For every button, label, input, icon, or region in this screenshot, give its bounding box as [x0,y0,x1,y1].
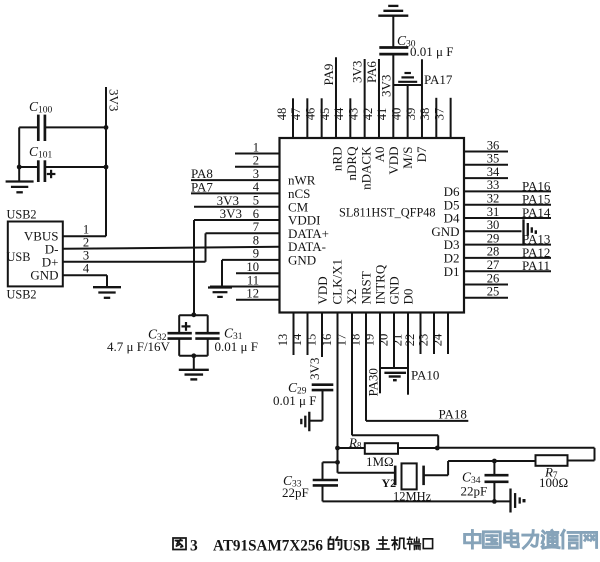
wire pin16 to crystal left [338,472,395,474]
connector USB2 body [8,222,63,287]
small inverted ground above pin 40 [398,73,417,82]
label C100 [29,99,53,116]
pin number 39 [404,108,418,121]
svg-text:47: 47 [289,108,303,121]
pin number 11 [247,273,259,287]
capacitor C31 [195,333,219,338]
pin number 6 [253,207,259,221]
svg-text:0.01 μ F: 0.01 μ F [273,393,316,408]
junction R8/X2 node [435,446,440,451]
wire 3V3 from pin 6 down to C32/C31 [193,220,195,315]
svg-text:PA10: PA10 [411,368,439,383]
pin number 43 [346,108,360,121]
value 100 ohm (R7) [539,475,568,490]
svg-text:4.7 μ F/16V: 4.7 μ F/16V [107,339,171,354]
pin number 9 [253,247,259,261]
pin name DATA+ (pin 7) [288,226,329,241]
pin number 3 (USB) [83,249,89,263]
junction C100/3V3 [104,125,109,130]
pin name nDACK (top row) [359,146,374,190]
caption text AT91SAM7X256 [213,538,323,555]
svg-text:PA9: PA9 [321,64,336,86]
caption 主机端口 [377,537,433,550]
pin number 47 [289,108,303,121]
ground below C32/C31 [179,370,209,380]
net 3V3 vertical rail [105,87,107,236]
wire chip pin 3 (left) [191,179,280,181]
label C31 [224,326,243,343]
svg-text:4: 4 [83,262,90,276]
resistor R7 [536,455,568,466]
svg-text:3: 3 [190,538,198,555]
wire chip pin 26 (right) [464,284,508,286]
pin number 18 [348,334,362,347]
wire USB pin1 VBUS to 3V3 [63,235,106,237]
wire R8 right to X2 node [398,447,437,449]
wire C34 top leg [493,461,495,475]
svg-text:30: 30 [487,218,500,232]
net label PA30 (pin 19) [366,368,381,396]
net label 3V3 (pin 15) [307,358,322,380]
power symbol inverted ground at top [378,6,408,16]
wire C101 left [19,166,38,168]
pin number 4 (USB) [83,262,90,276]
capacitor C33 [313,480,338,485]
pin number 31 [487,205,500,219]
label C30 [397,33,416,50]
svg-text:7: 7 [253,220,259,234]
capacitor C100 [38,115,45,141]
pin name CM (pin 5) [288,199,309,214]
pin name D+ (USB) [42,255,59,270]
wire chip pin 40 (top) [407,85,409,138]
svg-text:10: 10 [246,260,259,274]
pin number 1 (USB) [83,223,89,237]
svg-text:26: 26 [487,271,500,285]
wire C34 bottom leg [493,482,495,502]
capacitor C32 (polarized) [168,333,192,338]
wire chip pin 17 (bottom) [351,313,353,436]
pin number 37 [432,108,446,121]
pin name GND (pin 30) [431,224,459,239]
wire chip pin 24 (bottom) [447,313,449,355]
wire chip pin 28 (right) [464,257,551,259]
pin number 29 [487,231,500,245]
pin number 8 [253,233,259,247]
wire C33 branch from pin16 [323,462,338,479]
junction C101/3V3 [104,165,109,170]
svg-text:1MΩ: 1MΩ [366,454,394,469]
svg-text:USB: USB [7,250,31,264]
svg-text:12: 12 [246,287,259,301]
pin number 22 [403,334,417,347]
ground at chip pin 30 (right, rotated) [524,219,538,245]
value 1M ohm (R8) [366,454,394,469]
net label PA11 (pin 27) [522,258,550,273]
wire chip pin 32 (right) [464,204,551,206]
pin name X2 (bottom row) [344,289,359,305]
value 22pF (C34) [461,483,488,498]
label R7 [544,465,558,481]
svg-text:35: 35 [487,152,500,166]
svg-text:D7: D7 [414,146,429,162]
wire C32/C31 bottom bar [179,355,208,357]
ground at chip pins 20/21 (bottom) [380,368,408,380]
svg-text:VDD: VDD [386,147,401,175]
junction at C32/C31 bottom [191,353,196,358]
pin name D1 (pin 27) [444,264,460,279]
pin name D0 (bottom row) [401,289,416,305]
caption figure number 图3 [173,538,198,555]
svg-text:3V3: 3V3 [307,358,322,380]
svg-text:NRST: NRST [359,271,374,304]
svg-text:PA14: PA14 [522,205,551,220]
svg-text:13: 13 [276,334,290,347]
wire chip pin 46 (top) [321,98,323,138]
svg-text:nRD: nRD [330,147,345,172]
pin name INTRQ (bottom row) [373,264,388,304]
svg-text:42: 42 [361,108,375,121]
capacitor C101 (polarized) [38,160,45,182]
wire C33 bottom to ground rail [322,485,324,501]
wire C100 left [19,126,38,128]
svg-text:22pF: 22pF [461,483,488,498]
net label 3V3 (pin 5) [217,193,239,208]
wire C31 bottom leg [207,339,209,356]
wire pin 17 jog to X2 node [352,435,438,448]
svg-text:17: 17 [334,334,348,347]
svg-text:2: 2 [83,236,89,250]
net label 3V3 (pin 43) [350,61,365,83]
wire chip pin 44 (top) [349,98,351,138]
pin number 45 [318,108,332,121]
wire chip pin 6 (left) [194,219,280,221]
wire chip pin 22 (bottom) [420,313,422,355]
svg-text:CLK/X1: CLK/X1 [330,259,345,305]
svg-text:39: 39 [404,108,418,121]
svg-text:16: 16 [320,334,334,347]
wire chip pin 12 (left) [236,299,280,301]
svg-text:1: 1 [83,223,89,237]
pin number 24 [430,333,444,346]
ground at USB pin 4 [93,287,121,298]
svg-text:31: 31 [487,205,500,219]
junction C34 top [492,459,497,464]
svg-text:19: 19 [362,334,376,347]
pin name A0 (top row) [372,147,387,163]
wire C101 right to 3V3 [45,166,106,168]
svg-text:38: 38 [418,108,432,121]
svg-text:GND: GND [387,276,402,304]
junction left leg [17,165,22,170]
junction pin16/R8 [335,446,340,451]
pin name NRST (bottom row) [359,271,374,304]
value 0.01 uF (C30) [410,44,453,59]
pin name GND (bottom row) [387,276,402,304]
wire chip pin 42 (top) [378,59,380,138]
svg-text:36: 36 [487,138,500,152]
label USB2 (above) [7,208,37,222]
wire R8 left [338,447,365,449]
junction C34/ground rail [492,499,497,504]
wire chip pin 48 (top) [292,98,294,138]
pin number 1 [253,140,259,154]
pin number 38 [418,108,432,121]
pin name GND (pin 9) [288,253,316,268]
value 0.01uF (C31) [215,339,258,354]
label C32 [148,327,167,344]
capacitor C34 [485,475,509,482]
svg-text:100Ω: 100Ω [539,475,568,490]
svg-text:14: 14 [290,333,304,346]
pin name M/S (top row) [400,147,415,169]
pin name D2 (pin 28) [444,251,460,266]
junction at C32/C31 top [191,312,196,317]
pin number 28 [487,245,500,259]
pin number 12 [246,287,259,301]
wire C32 top leg [178,315,180,333]
ground at chip pin 9/11 (left bottom) [208,260,232,297]
wire chip pin 13 (bottom) [293,313,295,356]
svg-text:nDRQ: nDRQ [344,146,359,181]
ground below C100/C101 [6,182,34,193]
wire chip pin 29 (right) [464,244,551,246]
wire chip pin 2 (left) [235,166,280,168]
pin number 2 [253,154,259,168]
wire bottom ground rail [323,500,511,502]
value 12MHz (Y2) [393,490,432,504]
svg-text:VDD: VDD [315,276,330,304]
value 4.7uF/16V (C32) [107,339,171,354]
wire chip pin 33 (right) [464,190,551,192]
svg-text:M/S: M/S [400,147,415,169]
svg-text:5: 5 [253,194,259,208]
wire chip pin 14 (bottom) [307,313,309,356]
svg-text:Y2: Y2 [382,476,397,490]
pin number 21 [390,334,404,347]
wire C31 top leg [207,315,209,333]
wire chip pin 5 (left) [194,206,280,208]
svg-text:3V3: 3V3 [107,89,122,111]
pin name VDDI (pin 6) [288,213,321,228]
svg-text:22: 22 [403,334,417,347]
wire chip pin 19 (bottom) [379,313,381,394]
wire chip pin 1 (left) [235,153,280,155]
wire chip pin 43 (top) [364,59,366,138]
svg-text:9: 9 [253,247,259,261]
pin name D- (USB) [45,242,59,257]
net label PA16 (pin 33) [522,178,551,193]
pin name GND (USB) [30,268,58,283]
net label 3V3 (pin 41) [378,75,393,97]
pin number 23 [416,334,430,347]
capacitor C30 [379,48,408,55]
svg-text:A0: A0 [372,147,387,163]
svg-text:1: 1 [253,140,259,154]
pin number 44 [332,107,346,120]
svg-text:4: 4 [253,180,260,194]
junction pin16/C33 branch [335,460,340,465]
svg-text:25: 25 [487,285,500,299]
svg-text:22pF: 22pF [282,485,309,500]
pin name CLK/X1 (bottom row) [330,259,345,305]
wire chip pin 37 (top) [450,98,452,138]
pin number 36 [487,138,500,152]
plus mark C32 [182,322,191,331]
value 0.01uF (C29) [273,393,316,408]
svg-text:29: 29 [487,231,500,245]
wire USB pin4 GND [63,275,107,287]
pin name D3 (pin 29) [444,237,460,252]
pin number 40 [389,108,403,121]
svg-text:X2: X2 [344,289,359,305]
plus mark C101 [47,170,56,178]
svg-text:D1: D1 [444,264,460,279]
wire chip pin 16 (bottom) [337,313,339,473]
wire X2 node loop to R7 right [437,448,594,461]
wire chip pin 41 (top) [392,54,394,138]
net label PA15 (pin 32) [522,192,550,207]
wire R7 left to crystal right / C34 [424,461,536,475]
pin number 19 [362,334,376,347]
net label PA12 (pin 28) [522,245,550,260]
label R8 [348,435,362,451]
wire chip pin 9 (left) [222,259,280,261]
pin number 26 [487,271,500,285]
svg-text:0.01 μ F: 0.01 μ F [215,339,258,354]
resistor R8 [365,443,398,454]
wire chip pin 23 (bottom) [433,313,435,355]
caption USB [343,538,370,555]
IC U1 SL811HST_QFP48 body [280,138,465,313]
pin name nWR (pin 3) [288,173,316,188]
pin number 17 [334,334,348,347]
net label PA7 (pin 4) [191,180,213,195]
pin number 33 [487,178,500,192]
net label PA8 (pin 3) [191,166,213,181]
pin number 46 [303,108,317,121]
svg-text:18: 18 [348,334,362,347]
pin name VDD (bottom row) [315,276,330,304]
svg-text:3V3: 3V3 [350,61,365,83]
label USB2 (below) [7,288,37,302]
svg-text:D0: D0 [401,289,416,305]
wire chip pin 21 (bottom) [407,313,409,395]
label C29 [288,380,307,397]
wire PA18 line (pin 18) [366,420,468,422]
svg-text:40: 40 [389,108,403,121]
svg-text:6: 6 [253,207,259,221]
pin name D7 (top row) [414,146,429,162]
svg-text:24: 24 [430,333,444,346]
wire chip pin 8 DATA- to USB D- [63,247,280,249]
ground at rail end (rotated) [511,489,526,513]
svg-text:33: 33 [487,178,500,192]
wire C32 bottom leg [178,339,180,356]
svg-text:INTRQ: INTRQ [373,264,388,304]
pin number 48 [275,108,289,121]
svg-text:GND: GND [30,268,58,283]
net label PA10 (pin 21) [411,368,439,383]
pin number 34 [487,165,500,179]
pin name VDD (top row) [386,147,401,175]
wire chip pin 36 (right) [464,151,508,153]
net label 3V3 (rail top) [107,89,122,111]
pin number 15 [304,334,318,347]
wire C100 right to 3V3 [45,126,106,128]
wire chip pin 39 (top) [421,59,423,138]
label C101 [29,144,53,161]
wire left leg C100-C101 [18,127,20,181]
svg-text:8: 8 [253,233,259,247]
wire chip pin 27 (right) [464,270,551,272]
svg-text:43: 43 [346,108,360,121]
svg-text:11: 11 [247,273,259,287]
wire C32/C31 top bar [179,314,208,316]
wire chip pin 20 (bottom) [393,313,395,369]
pin number 2 (USB) [83,236,89,250]
label C34 [462,470,481,487]
pin number 32 [487,192,500,206]
svg-text:PA11: PA11 [522,258,550,273]
wire chip pin 30 (right) [464,230,522,232]
net label PA6 (pin 42) [364,61,379,83]
pin name D6 (pin 33) [444,184,460,199]
pin number 35 [487,152,500,166]
net label PA17 (pin 39) [424,72,453,87]
svg-text:46: 46 [303,108,317,121]
wire top ground to C30 [392,16,394,48]
svg-text:PA18: PA18 [439,406,467,421]
capacitor C29 [312,385,334,390]
pin name D4 (pin 31) [444,211,460,226]
net label PA9 (pin 45) [321,64,336,86]
wire chip pin 47 (top) [306,98,308,138]
svg-text:48: 48 [275,108,289,121]
pin name DATA- (pin 8) [288,239,326,254]
net label PA13 (pin 29) [522,232,550,247]
svg-text:PA17: PA17 [424,72,453,87]
wire chip pin 11 (left) [210,286,280,288]
svg-text:41: 41 [375,108,389,121]
wire chip pin 15 (bottom) [321,313,323,358]
ground left of C29 (rotated) [301,412,309,432]
svg-text:2: 2 [253,154,259,168]
svg-text:PA7: PA7 [191,180,213,195]
wire chip pin 38 (top) [435,98,437,138]
pin number 7 [253,220,259,234]
caption 的 [329,537,342,550]
pin name D5 (pin 32) [444,197,460,212]
svg-text:USB2: USB2 [7,208,37,222]
net label 3V3 (pin 6) [220,206,242,221]
svg-text:3V3: 3V3 [220,206,242,221]
svg-text:0.01 μ F: 0.01 μ F [410,44,453,59]
wire chip pin 45 (top) [335,57,337,138]
pin number 4 [253,180,260,194]
pin number 30 [487,218,500,232]
pin name nCS (pin 4) [288,186,310,201]
net label PA14 (pin 31) [522,205,551,220]
pin number 42 [361,108,375,121]
svg-text:PA30: PA30 [366,368,381,396]
net label PA18 (pin 18) [439,406,467,421]
wire chip pin 34 (right) [464,177,508,179]
wire to ground below C32/C31 [193,356,195,370]
svg-text:USB: USB [343,538,370,555]
svg-text:20: 20 [376,334,390,347]
svg-text:3V3: 3V3 [378,75,393,97]
